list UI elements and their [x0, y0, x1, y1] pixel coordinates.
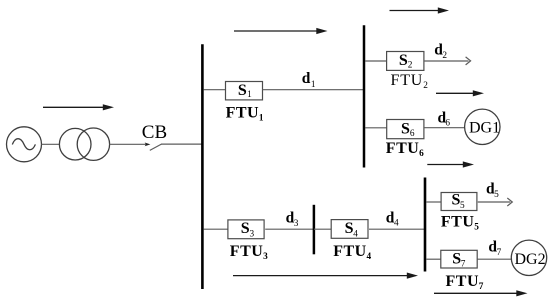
wire S1 to bus2, section d1	[263, 89, 364, 91]
d5 label	[486, 181, 499, 201]
FTU5 label	[441, 213, 479, 232]
flow arrow above S1	[234, 28, 328, 34]
switch S4 box	[331, 220, 368, 239]
svg-text:2: 2	[423, 81, 428, 91]
S6 label	[401, 120, 415, 139]
FTU1 label	[226, 104, 264, 123]
flow arrow between S2 and S6	[436, 90, 484, 96]
svg-text:S: S	[241, 220, 250, 237]
d1 label	[302, 70, 316, 90]
FTU7 label	[446, 273, 484, 292]
S4 label	[345, 220, 359, 239]
S2 label	[399, 52, 413, 71]
switch S3 box	[228, 220, 264, 239]
d3 label	[286, 210, 299, 229]
svg-text:FTU: FTU	[226, 104, 260, 121]
svg-text:6: 6	[445, 119, 450, 129]
svg-text:5: 5	[474, 222, 479, 232]
wire S4 to bus3, section d4	[369, 228, 424, 230]
wire transformer to CB	[110, 143, 146, 145]
DG1	[465, 109, 501, 144]
wire mid bar to S4	[314, 228, 331, 230]
svg-text:FTU: FTU	[333, 243, 367, 260]
flow arrow top right	[390, 7, 450, 13]
svg-text:CB: CB	[142, 122, 167, 143]
S3 label	[241, 220, 255, 239]
transformer T	[59, 128, 109, 160]
source G	[7, 127, 42, 162]
FTU4 label	[333, 243, 371, 262]
svg-text:4: 4	[394, 218, 399, 228]
svg-text:DG2: DG2	[515, 251, 546, 268]
d4 label	[386, 209, 399, 228]
flow arrow above source	[43, 104, 114, 110]
svg-text:4: 4	[367, 252, 372, 262]
wire bus3 to S7	[426, 258, 441, 260]
wire bus2 to S2	[365, 60, 387, 62]
svg-text:FTU: FTU	[446, 273, 480, 290]
svg-text:DG1: DG1	[469, 120, 500, 137]
svg-text:3: 3	[294, 219, 299, 229]
flow arrow lower feeder	[233, 273, 418, 279]
svg-text:5: 5	[460, 201, 465, 211]
svg-text:FTU: FTU	[441, 213, 475, 230]
svg-text:4: 4	[353, 229, 358, 239]
wire S2 out, section d2	[424, 60, 469, 62]
switch S1 box	[226, 82, 263, 100]
svg-text:S: S	[401, 120, 410, 137]
switch S6 box	[387, 120, 424, 139]
svg-text:6: 6	[410, 129, 415, 139]
svg-text:7: 7	[479, 282, 484, 292]
wire main bus to S1	[204, 89, 226, 91]
flow arrow below FTU6	[427, 161, 474, 167]
flow arrow bottom right	[434, 290, 528, 296]
d2 label	[434, 41, 447, 61]
svg-text:1: 1	[311, 80, 316, 90]
wire CB to main bus	[161, 143, 202, 145]
wire bus2 to S6	[365, 127, 387, 129]
svg-text:3: 3	[263, 252, 268, 262]
FTU3 label	[230, 243, 268, 262]
CB switch blade	[150, 144, 162, 150]
S5 label	[452, 191, 466, 210]
wire S5 out, section d5	[478, 201, 511, 203]
wire S7 to DG2, section d7	[478, 258, 512, 260]
d7 label	[488, 239, 501, 259]
svg-text:1: 1	[247, 90, 252, 100]
switch S7 box	[441, 250, 477, 268]
svg-text:6: 6	[419, 149, 424, 159]
wire source to transformer	[42, 143, 60, 145]
bus 3	[424, 178, 427, 272]
d5 outflow chevron	[507, 198, 512, 206]
wire bus3 to S5	[426, 201, 441, 203]
svg-text:7: 7	[497, 248, 502, 258]
svg-text:FTU: FTU	[386, 140, 420, 157]
wire main bus to S3	[204, 228, 228, 230]
S1 label	[238, 82, 252, 100]
DG2	[511, 240, 546, 275]
bus 2	[363, 25, 366, 167]
svg-text:FTU: FTU	[391, 72, 424, 89]
wire S3 to mid bar, section d3	[265, 228, 313, 230]
S7 label	[452, 250, 466, 269]
svg-text:d: d	[302, 70, 311, 87]
d6 label	[438, 110, 451, 129]
d2 outflow chevron	[466, 57, 471, 65]
svg-text:5: 5	[494, 190, 499, 200]
svg-text:2: 2	[408, 61, 413, 71]
switch S2 box	[387, 52, 424, 71]
svg-text:1: 1	[259, 113, 264, 123]
svg-text:2: 2	[442, 51, 447, 61]
svg-text:FTU: FTU	[230, 243, 263, 260]
mid bus bar	[313, 205, 316, 255]
FTU6 label	[386, 140, 424, 159]
svg-text:S: S	[238, 82, 247, 99]
svg-text:7: 7	[461, 260, 466, 270]
svg-text:3: 3	[250, 229, 255, 239]
FTU2 label	[391, 72, 429, 91]
switch S5 box	[441, 193, 477, 211]
svg-text:S: S	[399, 52, 408, 69]
CB contact arrowhead	[145, 143, 151, 147]
main bus	[201, 44, 204, 289]
wire S6 to DG1, section d6	[424, 127, 465, 129]
